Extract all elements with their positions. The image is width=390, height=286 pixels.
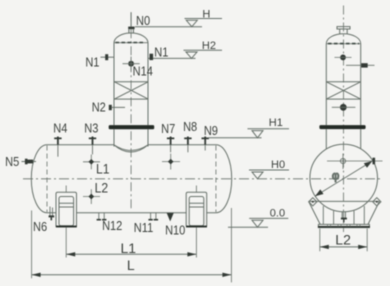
svg-text:N12: N12: [102, 218, 123, 233]
wire: vessel horizontal centerline: [23, 178, 380, 180]
nozzle N12 (bottom): [97, 213, 107, 221]
datum H: [185, 19, 223, 27]
svg-text:N5: N5: [5, 154, 19, 169]
svg-text:N11: N11: [134, 220, 154, 235]
svg-text:N4: N4: [53, 120, 67, 135]
saddle support right (side view): [186, 186, 207, 228]
vessel shell circle (end view): [310, 144, 378, 212]
nozzle N10 (bottom, solid): [167, 213, 174, 221]
nozzle-shell intersection arcs: [114, 145, 148, 151]
nozzle N0 end view: [337, 27, 350, 34]
svg-text:N14: N14: [133, 64, 154, 79]
left column shell sides: [114, 43, 148, 125]
svg-text:0.0: 0.0: [270, 208, 285, 220]
nozzle N5 projected (crosshair circle): [327, 154, 383, 170]
nozzle N11 (bottom): [148, 213, 158, 221]
svg-text:N1: N1: [154, 45, 168, 60]
dimension L: [32, 208, 232, 282]
anchor lug right (diamond): [373, 198, 381, 206]
nozzle N4: [54, 137, 61, 157]
svg-text:L: L: [127, 257, 135, 273]
node N0 leader to H datum: [135, 26, 202, 28]
vessel shell (side view): [31, 145, 231, 213]
svg-text:N3: N3: [84, 120, 98, 135]
svg-text:N1: N1: [85, 55, 99, 70]
svg-text:H: H: [202, 8, 210, 20]
datum H2: [148, 50, 222, 58]
svg-text:L2: L2: [95, 180, 109, 196]
dimension L2: [320, 229, 367, 252]
svg-text:N6: N6: [33, 219, 47, 234]
svg-text:N7: N7: [161, 121, 175, 136]
nozzle N14 end view (stub right): [346, 63, 375, 67]
right column tangent/mesh: [326, 43, 360, 45]
datum 0.0: [228, 218, 288, 227]
wire: left column vertical centerline: [130, 12, 132, 211]
svg-text:N0: N0: [136, 13, 150, 28]
datum H1: [209, 129, 290, 138]
right head: [216, 145, 232, 213]
right column neck below flange: [326, 129, 360, 149]
nozzle N2 end view (circle): [332, 104, 356, 111]
right column flange: [319, 125, 365, 129]
nozzle N9: [202, 137, 209, 151]
nozzle N0: [128, 12, 134, 33]
svg-text:L1: L1: [96, 161, 110, 177]
nozzle N3: [89, 137, 96, 155]
nozzle N14 (circle, facing viewer): [123, 57, 140, 72]
saddle (end view): [309, 201, 380, 227]
internal X brace right column: [326, 82, 360, 99]
nozzle N2: [109, 105, 125, 110]
target mark below N7: [162, 154, 180, 170]
right column dome: [326, 34, 360, 44]
diameter line with arrows: [315, 161, 372, 196]
nozzle N5: [22, 159, 37, 165]
left column flange: [109, 125, 155, 129]
bottom drain stub: [342, 212, 345, 218]
left head: [31, 145, 47, 213]
left column dome head: [114, 33, 148, 43]
left column tangent/mesh line: [114, 42, 148, 44]
head tangent dashed lines: [46, 146, 48, 213]
target mark L2: [83, 189, 100, 204]
datum H0: [249, 170, 289, 179]
svg-text:H1: H1: [269, 117, 283, 129]
svg-text:φ: φ: [332, 171, 339, 183]
dimension L1: [66, 227, 196, 257]
nozzle N8: [184, 137, 191, 153]
nozzle N7: [167, 137, 174, 153]
svg-text:H2: H2: [202, 40, 216, 52]
wire: right column vertical centerline: [343, 6, 345, 233]
target mark L1: [83, 155, 100, 170]
saddle support left (side view): [56, 186, 77, 228]
svg-text:L1: L1: [121, 240, 137, 256]
svg-text:N9: N9: [204, 123, 218, 138]
anchor lug left (diamond): [309, 198, 317, 206]
svg-text:H0: H0: [271, 159, 285, 171]
svg-text:L2: L2: [335, 231, 351, 247]
left column neck below flange: [114, 129, 148, 146]
nozzle N1 right: [150, 54, 154, 60]
right column sides: [326, 44, 360, 125]
nozzle N6: [49, 207, 55, 221]
ribs: [323, 206, 364, 224]
nozzle N1 left: [101, 54, 115, 60]
svg-text:N10: N10: [165, 223, 186, 238]
nozzle N1 end view (circle): [335, 55, 352, 61]
svg-text:N2: N2: [92, 100, 106, 115]
svg-text:N8: N8: [183, 119, 197, 134]
saddle base hatch ticks: [328, 224, 361, 226]
internal X brace (wire mesh) left column: [114, 82, 148, 99]
